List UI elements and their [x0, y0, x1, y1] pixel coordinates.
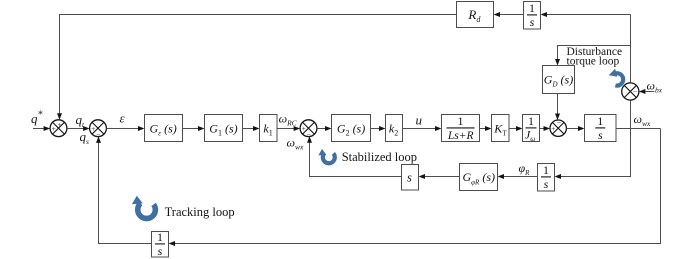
block KT torque constant [492, 115, 510, 142]
block 1/s top differentiator [524, 1, 541, 29]
block k2 gain [386, 115, 403, 142]
block 1/s tracking integrator [152, 230, 169, 258]
wire top 1/s to Rd [494, 12, 524, 17]
svg-text:+: + [551, 124, 555, 133]
svg-text:Ls+R: Ls+R [447, 130, 474, 142]
block 1/(Ls+R) motor electrical [442, 114, 480, 142]
summing junction S1 [50, 120, 67, 137]
wire S3 to G2 [317, 126, 332, 131]
svg-text:Stabilized loop: Stabilized loop [342, 150, 417, 164]
block G2(s) [332, 115, 371, 142]
block s differentiator [402, 165, 419, 191]
svg-text:GD (s): GD (s) [544, 73, 573, 89]
svg-text:G2 (s): G2 (s) [337, 121, 365, 137]
wire 1/Jw to S4 [540, 126, 551, 131]
svg-text:−: − [633, 87, 637, 96]
wire S5 output up to top feedback line [630, 15, 632, 83]
svg-text:s: s [158, 244, 163, 258]
svg-text:G1 (s): G1 (s) [209, 121, 237, 137]
svg-text:1: 1 [157, 230, 163, 244]
wire G_epsilon to G1 [183, 126, 205, 131]
loop icon stabilized loop [318, 149, 334, 163]
block k1 gain [260, 115, 278, 142]
svg-text:−: − [307, 130, 311, 139]
wire GphiR to s block [419, 174, 460, 179]
wire output branch down to stabilized loop row [560, 129, 631, 177]
wire s block output left and up into S3 [307, 136, 402, 176]
loop icon disturbance torque loop [609, 69, 623, 86]
svg-text:ωwx: ωwx [287, 135, 304, 151]
summing junction S5 [622, 83, 639, 100]
wire G1 to k1 [243, 126, 260, 131]
wire tracking 1/s output left and up into S2 [96, 136, 152, 243]
wire integrator output to right corner [616, 128, 661, 130]
block 1/s main integrator [585, 114, 617, 142]
block GD(s) disturbance torque model [543, 66, 575, 94]
svg-text:1: 1 [597, 114, 603, 128]
svg-text:+: + [52, 124, 56, 133]
wire Rd output left and down into S1 [57, 15, 457, 120]
svg-text:ωRC: ωRC [279, 112, 298, 128]
wire KT to 1/Jw [509, 126, 523, 131]
svg-text:1: 1 [543, 163, 549, 177]
wire output branch vertical up to S5 [630, 100, 632, 128]
wire S4 to integrator [566, 126, 584, 131]
svg-text:u: u [416, 113, 423, 128]
wire output right corner down and along bottom [175, 129, 661, 244]
svg-text:Tracking loop: Tracking loop [165, 205, 235, 219]
wire S2 to G_epsilon block [106, 126, 144, 131]
svg-text:s: s [530, 15, 535, 29]
svg-text:s: s [544, 177, 549, 191]
summing junction S2 [90, 120, 107, 137]
block Rd [457, 2, 494, 28]
block G_epsilon(s) controller [145, 115, 183, 142]
svg-text:ωwx: ωwx [634, 112, 651, 128]
svg-text:s: s [598, 128, 603, 142]
svg-text:Gε (s): Gε (s) [150, 121, 177, 137]
svg-text:1: 1 [529, 1, 535, 15]
svg-text:ε: ε [120, 111, 126, 126]
wire GD output down into S4 [555, 94, 560, 121]
svg-text:1: 1 [458, 114, 464, 128]
wire motor to KT [480, 126, 492, 131]
svg-text:+: + [57, 120, 61, 129]
svg-text:s: s [407, 170, 412, 184]
wire q* input into summing junction S1 [33, 126, 50, 131]
svg-text:q*: q* [31, 110, 43, 127]
block GphiR(s) [460, 164, 498, 191]
summing junction S3 [300, 120, 317, 137]
wire k2 to motor electrical block [403, 126, 442, 131]
arrowhead into stabilized 1/s block [555, 174, 562, 179]
summing junction S4 [550, 120, 566, 136]
svg-text:+: + [91, 124, 95, 133]
block 1/s stabilized integrator [538, 163, 555, 191]
wire G2 to k2 [371, 126, 386, 131]
wire omega_bx into S5 [639, 89, 655, 94]
svg-text:qs: qs [80, 129, 90, 146]
block G1(s) [205, 115, 243, 142]
svg-text:φR: φR [519, 161, 531, 177]
wire S1 to S2 [67, 126, 90, 131]
wire stabilized 1/s to GphiR [498, 174, 538, 179]
arrowhead into tracking 1/s block [169, 241, 176, 246]
wire k1 to S3 [277, 126, 300, 131]
svg-text:+: + [302, 124, 306, 133]
block 1/Jw inertia [523, 114, 540, 143]
wire disturbance tap from vertical down into GD [555, 46, 631, 66]
wire top feedback line into top 1/s block [541, 12, 631, 17]
svg-text:1: 1 [528, 114, 534, 128]
loop icon tracking loop [132, 196, 155, 219]
